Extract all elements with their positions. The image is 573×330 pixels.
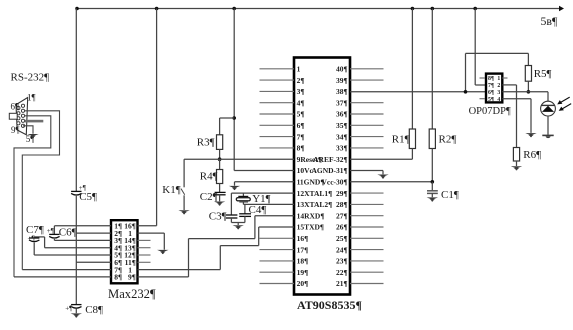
svg-text:AT90S8535¶: AT90S8535¶ [297, 298, 362, 312]
svg-text:5¶: 5¶ [297, 110, 305, 119]
svg-text:39¶: 39¶ [336, 76, 348, 85]
svg-text:5¶: 5¶ [488, 97, 494, 103]
svg-text:K1¶: K1¶ [162, 184, 180, 196]
svg-text:R6¶: R6¶ [523, 149, 541, 161]
svg-text:13XTAL2¶: 13XTAL2¶ [297, 200, 333, 209]
svg-text:38¶: 38¶ [336, 87, 348, 96]
svg-text:Y1¶: Y1¶ [252, 193, 270, 205]
svg-text:35¶: 35¶ [336, 121, 348, 130]
svg-text:14RXD¶: 14RXD¶ [297, 211, 325, 220]
svg-text:7¶: 7¶ [488, 83, 494, 89]
svg-text:Vcc-30¶: Vcc-30¶ [321, 178, 347, 187]
svg-text:2: 2 [497, 83, 500, 89]
svg-text:8¶: 8¶ [114, 273, 122, 282]
svg-text:1: 1 [497, 76, 500, 82]
svg-text:R5¶: R5¶ [534, 68, 552, 80]
svg-text:9¶: 9¶ [11, 125, 20, 135]
svg-text:37¶: 37¶ [336, 98, 348, 107]
svg-text:7¶: 7¶ [297, 132, 305, 141]
svg-text:C4¶: C4¶ [249, 204, 267, 216]
svg-text:+¶: +¶ [47, 227, 55, 235]
svg-text:18¶: 18¶ [297, 257, 309, 266]
svg-text:23¶: 23¶ [336, 257, 348, 266]
svg-text:3¶: 3¶ [297, 87, 305, 96]
svg-text:OP07DP¶: OP07DP¶ [469, 106, 511, 117]
svg-text:AREF-32¶: AREF-32¶ [313, 155, 347, 164]
svg-text:22¶: 22¶ [336, 268, 348, 277]
svg-text:4¶: 4¶ [297, 98, 305, 107]
svg-text:R3¶: R3¶ [197, 137, 215, 149]
svg-text:Max232¶: Max232¶ [108, 287, 156, 301]
svg-text:29¶: 29¶ [336, 189, 348, 198]
svg-text:R4¶: R4¶ [200, 171, 218, 183]
svg-text:RS-232¶: RS-232¶ [11, 71, 50, 83]
svg-text:C3¶: C3¶ [209, 210, 227, 222]
svg-text:33¶: 33¶ [336, 144, 348, 153]
svg-text:1: 1 [297, 65, 301, 74]
svg-text:AGND-31¶: AGND-31¶ [311, 166, 347, 175]
svg-text:9¶: 9¶ [128, 273, 136, 282]
svg-text:R2¶: R2¶ [439, 134, 457, 146]
svg-text:5в¶: 5в¶ [541, 14, 558, 28]
svg-text:4: 4 [497, 97, 500, 103]
svg-text:34¶: 34¶ [336, 132, 348, 141]
svg-text:8¶: 8¶ [297, 144, 305, 153]
svg-text:16¶: 16¶ [297, 234, 309, 243]
svg-text:C8¶: C8¶ [85, 304, 103, 316]
svg-text:3: 3 [497, 90, 500, 96]
svg-text:R1¶: R1¶ [392, 134, 410, 146]
svg-text:27¶: 27¶ [336, 211, 348, 220]
svg-text:1¶: 1¶ [27, 93, 36, 103]
svg-text:6¶: 6¶ [297, 121, 305, 130]
svg-text:6¶: 6¶ [11, 101, 20, 111]
svg-text:19¶: 19¶ [297, 268, 309, 277]
svg-text:C6¶: C6¶ [59, 227, 77, 239]
svg-text:6¶: 6¶ [488, 90, 494, 96]
svg-text:25¶: 25¶ [336, 234, 348, 243]
svg-text:21¶: 21¶ [336, 279, 348, 288]
svg-text:40¶: 40¶ [336, 65, 348, 74]
svg-text:+¶: +¶ [65, 304, 73, 312]
svg-text:17¶: 17¶ [297, 245, 309, 254]
svg-text:36¶: 36¶ [336, 110, 348, 119]
svg-text:12XTAL1¶: 12XTAL1¶ [297, 189, 333, 198]
svg-text:C1¶: C1¶ [441, 189, 459, 201]
svg-text:C5¶: C5¶ [79, 191, 97, 203]
svg-text:C2¶: C2¶ [200, 191, 218, 203]
svg-text:28¶: 28¶ [336, 200, 348, 209]
svg-text:8¶: 8¶ [488, 76, 494, 82]
svg-text:+¶: +¶ [28, 234, 36, 242]
svg-text:2¶: 2¶ [297, 76, 305, 85]
svg-text:26¶: 26¶ [336, 223, 348, 232]
svg-text:11GND¶: 11GND¶ [297, 178, 325, 187]
svg-text:15TXD¶: 15TXD¶ [297, 223, 324, 232]
svg-text:24¶: 24¶ [336, 245, 348, 254]
svg-text:20¶: 20¶ [297, 279, 309, 288]
